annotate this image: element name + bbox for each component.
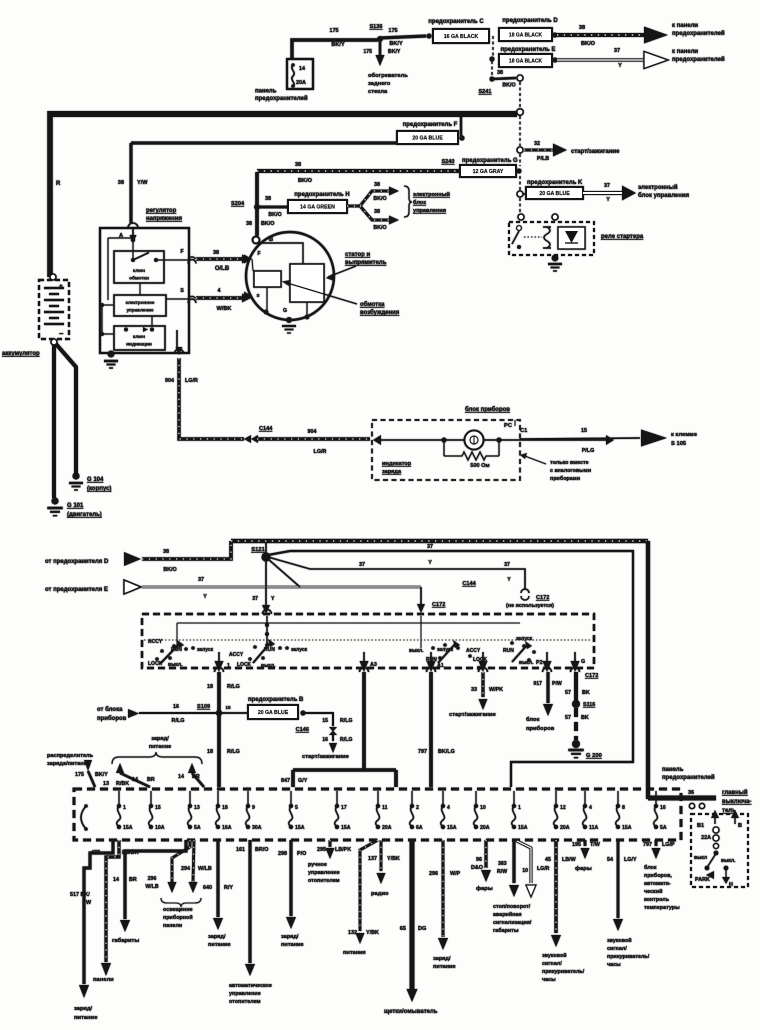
svg-text:F: F bbox=[257, 251, 260, 257]
svg-text:R/LG: R/LG bbox=[340, 737, 352, 743]
svg-text:LOCK: LOCK bbox=[237, 662, 252, 668]
svg-text:296: 296 bbox=[429, 871, 438, 877]
svg-text:ST: ST bbox=[477, 666, 485, 672]
svg-text:G: G bbox=[283, 308, 287, 314]
svg-text:96: 96 bbox=[476, 857, 482, 863]
svg-text:P/LG: P/LG bbox=[582, 448, 595, 454]
svg-text:распределитель: распределитель bbox=[47, 753, 94, 759]
svg-text:15A: 15A bbox=[295, 825, 305, 831]
svg-text:индикатор: индикатор bbox=[382, 461, 412, 467]
svg-text:37: 37 bbox=[427, 544, 433, 550]
svg-text:BK/O: BK/O bbox=[373, 225, 386, 231]
svg-text:S136: S136 bbox=[369, 24, 382, 30]
svg-text:BR: BR bbox=[192, 774, 200, 780]
svg-text:(не используется): (не используется) bbox=[506, 603, 554, 609]
svg-text:предохранителей: предохранителей bbox=[662, 774, 715, 781]
svg-text:B: B bbox=[269, 237, 274, 243]
svg-text:Y/BK: Y/BK bbox=[366, 930, 379, 936]
svg-text:1: 1 bbox=[123, 805, 126, 811]
svg-text:22A: 22A bbox=[701, 835, 711, 841]
svg-text:заряд/: заряд/ bbox=[208, 934, 226, 940]
svg-text:щетки/омыватель: щетки/омыватель bbox=[384, 1009, 438, 1015]
svg-text:заряд/: заряд/ bbox=[151, 736, 169, 742]
svg-text:A3: A3 bbox=[370, 662, 377, 668]
svg-text:Y: Y bbox=[271, 596, 275, 602]
svg-text:LG/R: LG/R bbox=[537, 866, 550, 872]
svg-text:Y/W: Y/W bbox=[137, 180, 148, 186]
svg-text:W/BK: W/BK bbox=[217, 306, 232, 312]
svg-text:LG/R: LG/R bbox=[185, 378, 198, 384]
svg-text:C144: C144 bbox=[259, 426, 273, 432]
svg-text:15A: 15A bbox=[518, 825, 528, 831]
svg-text:(корпус): (корпус) bbox=[87, 486, 111, 492]
svg-text:175: 175 bbox=[363, 49, 372, 55]
svg-text:4: 4 bbox=[447, 805, 450, 811]
svg-text:298: 298 bbox=[278, 851, 287, 857]
svg-text:R/LG: R/LG bbox=[227, 749, 240, 755]
svg-text:38: 38 bbox=[374, 182, 380, 188]
svg-text:старт/зажигание: старт/зажигание bbox=[571, 149, 620, 155]
svg-text:питание: питание bbox=[208, 942, 231, 948]
svg-text:часы: часы bbox=[542, 977, 556, 983]
svg-text:57: 57 bbox=[565, 690, 571, 696]
svg-text:сигнализация/: сигнализация/ bbox=[493, 920, 532, 926]
svg-text:питание: питание bbox=[149, 744, 172, 750]
svg-text:+: + bbox=[59, 283, 63, 290]
svg-text:BK/O: BK/O bbox=[163, 567, 176, 573]
svg-text:предохранителей: предохранителей bbox=[672, 30, 725, 37]
svg-text:W/LB: W/LB bbox=[198, 866, 212, 872]
svg-text:ACCY: ACCY bbox=[229, 652, 244, 658]
svg-text:37: 37 bbox=[504, 562, 510, 568]
svg-text:P/W: P/W bbox=[552, 681, 562, 687]
svg-text:14: 14 bbox=[178, 774, 184, 780]
svg-text:S 105: S 105 bbox=[671, 441, 687, 447]
svg-text:BK/O: BK/O bbox=[268, 212, 281, 218]
svg-text:(двигатель): (двигатель) bbox=[67, 512, 102, 518]
svg-text:57: 57 bbox=[565, 715, 571, 721]
svg-text:панели: панели bbox=[93, 977, 114, 983]
svg-text:BK: BK bbox=[582, 690, 590, 696]
svg-text:управление: управление bbox=[126, 308, 153, 313]
svg-text:BR/O: BR/O bbox=[255, 847, 268, 853]
svg-text:LG/Y: LG/Y bbox=[624, 857, 637, 863]
svg-text:175: 175 bbox=[388, 28, 397, 34]
svg-text:38: 38 bbox=[163, 549, 169, 555]
svg-text:16: 16 bbox=[173, 704, 179, 710]
svg-text:обмотки: обмотки bbox=[129, 275, 149, 282]
svg-text:38: 38 bbox=[118, 180, 124, 186]
svg-text:заряд/: заряд/ bbox=[281, 934, 299, 940]
svg-text:выключа-: выключа- bbox=[722, 799, 751, 805]
svg-text:предохранителей: предохранителей bbox=[672, 56, 725, 63]
svg-text:ACCY: ACCY bbox=[466, 648, 481, 654]
svg-text:LG/R: LG/R bbox=[314, 449, 327, 455]
svg-text:питания: питания bbox=[343, 950, 366, 956]
svg-text:к панели: к панели bbox=[672, 23, 698, 29]
svg-text:стекла: стекла bbox=[368, 89, 388, 95]
svg-text:65: 65 bbox=[400, 926, 406, 932]
svg-text:BK/Y: BK/Y bbox=[389, 41, 403, 47]
svg-text:возбуждения: возбуждения bbox=[360, 309, 400, 316]
svg-text:37: 37 bbox=[359, 562, 365, 568]
svg-text:15: 15 bbox=[155, 805, 161, 811]
svg-text:от предохранителя D: от предохранителя D bbox=[45, 559, 109, 565]
svg-text:32: 32 bbox=[534, 141, 540, 147]
svg-text:C172: C172 bbox=[585, 673, 598, 679]
svg-text:главный: главный bbox=[722, 789, 748, 796]
svg-text:выпрямитель: выпрямитель bbox=[345, 260, 387, 266]
svg-text:блок: блок bbox=[644, 864, 657, 871]
svg-text:904: 904 bbox=[308, 429, 317, 435]
svg-text:17: 17 bbox=[341, 805, 347, 811]
svg-text:14: 14 bbox=[299, 66, 305, 72]
svg-text:S109: S109 bbox=[197, 704, 210, 710]
svg-text:R/LG: R/LG bbox=[227, 684, 240, 690]
svg-text:питание: питание bbox=[74, 1015, 98, 1021]
svg-text:G 200: G 200 bbox=[586, 753, 602, 759]
svg-text:блок управления: блок управления bbox=[638, 192, 690, 199]
svg-text:предохранитель F: предохранитель F bbox=[403, 122, 458, 128]
svg-text:BK/O: BK/O bbox=[373, 196, 386, 202]
svg-text:ческий: ческий bbox=[644, 888, 662, 895]
svg-text:38: 38 bbox=[579, 25, 585, 31]
svg-text:517 BK/: 517 BK/ bbox=[70, 892, 90, 898]
svg-text:BK/O: BK/O bbox=[502, 83, 515, 89]
svg-text:175: 175 bbox=[329, 28, 338, 34]
svg-text:10: 10 bbox=[522, 868, 528, 874]
svg-text:W/PK: W/PK bbox=[489, 687, 503, 693]
svg-text:G 104: G 104 bbox=[87, 477, 104, 483]
svg-text:старт/зажигание: старт/зажигание bbox=[449, 712, 497, 718]
svg-text:S116: S116 bbox=[583, 702, 595, 708]
svg-text:управление: управление bbox=[229, 991, 261, 997]
svg-text:звуковой: звуковой bbox=[542, 952, 567, 959]
svg-text:S240: S240 bbox=[441, 159, 454, 165]
svg-text:ключ: ключ bbox=[133, 269, 145, 274]
svg-text:Y: Y bbox=[203, 594, 207, 600]
svg-text:37: 37 bbox=[252, 596, 258, 602]
svg-text:137: 137 bbox=[368, 856, 377, 862]
svg-text:H: H bbox=[729, 882, 733, 888]
svg-text:BK: BK bbox=[581, 715, 589, 721]
svg-text:реле стартера: реле стартера bbox=[601, 234, 644, 240]
svg-text:предохранитель G: предохранитель G bbox=[462, 158, 518, 164]
svg-text:выкл.: выкл. bbox=[168, 662, 183, 668]
svg-text:1: 1 bbox=[227, 663, 230, 669]
svg-text:управления: управления bbox=[413, 208, 446, 214]
svg-text:P/LB: P/LB bbox=[537, 156, 549, 162]
svg-text:15: 15 bbox=[322, 718, 328, 724]
svg-text:PARK: PARK bbox=[695, 877, 710, 883]
svg-text:выкл: выкл bbox=[694, 855, 707, 861]
svg-text:габариты: габариты bbox=[112, 937, 139, 944]
svg-text:R/BK: R/BK bbox=[116, 781, 129, 787]
svg-text:904: 904 bbox=[165, 378, 174, 384]
svg-text:C172: C172 bbox=[432, 602, 445, 608]
svg-text:фары: фары bbox=[476, 885, 493, 892]
svg-text:автомати-: автомати- bbox=[644, 881, 671, 887]
svg-text:предохранителей: предохранителей bbox=[255, 95, 308, 102]
svg-text:статор и: статор и bbox=[345, 252, 370, 258]
svg-text:предохранитель E: предохранитель E bbox=[500, 47, 555, 53]
svg-text:38: 38 bbox=[213, 250, 219, 256]
svg-text:C1: C1 bbox=[520, 428, 528, 434]
svg-text:LB/W: LB/W bbox=[562, 857, 577, 863]
svg-text:10A: 10A bbox=[155, 825, 165, 831]
svg-text:BK/Y: BK/Y bbox=[95, 772, 108, 778]
svg-text:175: 175 bbox=[75, 772, 84, 778]
svg-text:20 GA BLUE: 20 GA BLUE bbox=[539, 191, 570, 197]
svg-text:предохранитель B: предохранитель B bbox=[248, 697, 304, 703]
svg-text:15A: 15A bbox=[622, 825, 632, 831]
svg-text:выкл.: выкл. bbox=[409, 648, 424, 654]
svg-text:от блока: от блока bbox=[97, 706, 123, 713]
svg-text:приборов: приборов bbox=[526, 725, 555, 732]
svg-text:383: 383 bbox=[498, 861, 507, 867]
svg-text:заднего: заднего bbox=[368, 81, 391, 87]
svg-text:блок: блок bbox=[526, 716, 540, 723]
svg-text:стоп/поворот/: стоп/поворот/ bbox=[493, 904, 531, 910]
svg-text:11A: 11A bbox=[589, 825, 598, 831]
svg-text:12: 12 bbox=[560, 805, 566, 811]
svg-text:BK/O: BK/O bbox=[581, 41, 596, 47]
svg-text:LB/PK: LB/PK bbox=[335, 847, 351, 853]
svg-text:заряда/питания: заряда/питания bbox=[47, 761, 90, 767]
svg-text:отопителем: отопителем bbox=[308, 878, 340, 884]
svg-text:P2: P2 bbox=[536, 660, 543, 666]
svg-text:R/LG: R/LG bbox=[172, 718, 185, 724]
svg-text:O/LB: O/LB bbox=[215, 266, 230, 272]
svg-text:C144: C144 bbox=[462, 581, 476, 587]
svg-text:ключ: ключ bbox=[133, 335, 145, 340]
svg-text:Y: Y bbox=[606, 197, 610, 203]
svg-text:прикуриватель/: прикуриватель/ bbox=[607, 954, 650, 960]
svg-text:S241: S241 bbox=[478, 89, 491, 95]
svg-text:звуковой: звуковой bbox=[607, 937, 632, 944]
svg-text:37: 37 bbox=[198, 577, 204, 583]
svg-text:161: 161 bbox=[236, 847, 245, 853]
svg-text:выкл.: выкл. bbox=[721, 858, 736, 864]
svg-text:освещение: освещение bbox=[163, 907, 193, 913]
svg-text:сигнал/: сигнал/ bbox=[607, 946, 627, 952]
svg-text:блок приборов: блок приборов bbox=[465, 406, 510, 413]
svg-text:BK/Y: BK/Y bbox=[331, 42, 345, 48]
svg-text:с аналоговыми: с аналоговыми bbox=[550, 468, 591, 474]
svg-text:G 101: G 101 bbox=[67, 503, 84, 509]
svg-text:45: 45 bbox=[545, 857, 551, 863]
svg-text:P/O: P/O bbox=[297, 851, 306, 857]
svg-text:18: 18 bbox=[222, 805, 228, 811]
svg-text:ручное: ручное bbox=[308, 862, 327, 868]
svg-text:33: 33 bbox=[471, 687, 477, 693]
svg-text:управление: управление bbox=[308, 870, 340, 876]
svg-text:G/Y: G/Y bbox=[298, 778, 308, 784]
svg-text:панель: панель bbox=[662, 767, 684, 773]
svg-text:10: 10 bbox=[480, 805, 486, 811]
svg-text:только вместе: только вместе bbox=[550, 460, 589, 466]
svg-text:B: B bbox=[738, 823, 742, 829]
svg-text:BK/LG: BK/LG bbox=[438, 749, 455, 755]
svg-text:ACCY: ACCY bbox=[148, 639, 163, 645]
svg-text:15A: 15A bbox=[341, 825, 351, 831]
svg-text:BR: BR bbox=[147, 777, 155, 783]
svg-text:предохранитель K: предохранитель K bbox=[527, 180, 583, 186]
svg-text:38: 38 bbox=[374, 209, 380, 215]
svg-text:аккумулятор: аккумулятор bbox=[2, 351, 40, 357]
svg-text:DG: DG bbox=[418, 926, 426, 932]
svg-text:797: 797 bbox=[643, 842, 652, 848]
svg-text:питание: питание bbox=[281, 942, 304, 948]
svg-text:847: 847 bbox=[281, 778, 290, 784]
svg-text:917: 917 bbox=[533, 681, 542, 687]
svg-text:12 GA GRAY: 12 GA GRAY bbox=[473, 169, 504, 175]
svg-text:20A: 20A bbox=[480, 825, 490, 831]
svg-text:18 GA BLACK: 18 GA BLACK bbox=[509, 33, 543, 39]
svg-text:16 GA BLACK: 16 GA BLACK bbox=[444, 34, 479, 40]
svg-text:38: 38 bbox=[265, 196, 271, 202]
svg-text:BR: BR bbox=[129, 877, 137, 883]
svg-text:обмотка: обмотка bbox=[360, 301, 385, 308]
svg-text:электронный: электронный bbox=[638, 184, 678, 191]
svg-text:11: 11 bbox=[382, 805, 388, 811]
svg-text:20A: 20A bbox=[296, 80, 306, 86]
svg-text:36: 36 bbox=[688, 790, 694, 796]
svg-text:PC: PC bbox=[504, 423, 513, 429]
svg-text:сигнал/: сигнал/ bbox=[542, 961, 562, 967]
svg-text:Y: Y bbox=[428, 560, 432, 566]
svg-text:приборной: приборной bbox=[163, 914, 193, 921]
svg-text:132: 132 bbox=[348, 930, 357, 936]
svg-text:R/W: R/W bbox=[497, 869, 507, 875]
svg-text:отопителем: отопителем bbox=[229, 999, 261, 1005]
svg-text:R: R bbox=[56, 181, 61, 187]
svg-text:к панели: к панели bbox=[672, 49, 698, 55]
svg-text:18 GA BLACK: 18 GA BLACK bbox=[509, 59, 543, 65]
svg-text:5: 5 bbox=[295, 805, 298, 811]
svg-text:14 GA GREEN: 14 GA GREEN bbox=[300, 205, 335, 211]
svg-text:панель: панель bbox=[255, 89, 277, 95]
svg-text:предохранитель H: предохранитель H bbox=[294, 192, 349, 198]
svg-text:14: 14 bbox=[113, 877, 119, 883]
svg-text:S121: S121 bbox=[251, 547, 265, 553]
svg-text:электронное: электронное bbox=[126, 300, 155, 305]
svg-text:30A: 30A bbox=[252, 825, 262, 831]
svg-text:295: 295 bbox=[317, 847, 326, 853]
svg-text:A1: A1 bbox=[437, 663, 444, 669]
svg-text:6A: 6A bbox=[416, 825, 423, 831]
svg-text:14: 14 bbox=[132, 777, 138, 783]
svg-text:регулятор: регулятор bbox=[146, 208, 177, 214]
svg-text:8: 8 bbox=[622, 805, 625, 811]
svg-text:–: – bbox=[59, 329, 64, 338]
svg-text:электронный: электронный bbox=[413, 191, 450, 198]
svg-text:S: S bbox=[256, 293, 259, 298]
svg-text:прикуриватель/: прикуриватель/ bbox=[542, 969, 585, 975]
svg-text:LG/P: LG/P bbox=[662, 842, 675, 848]
svg-text:B1: B1 bbox=[697, 823, 704, 829]
svg-text:индикации: индикации bbox=[126, 343, 152, 348]
svg-text:5A: 5A bbox=[660, 825, 667, 831]
svg-text:выкл.: выкл. bbox=[261, 663, 276, 669]
svg-text:S: S bbox=[180, 288, 184, 294]
svg-text:38: 38 bbox=[246, 221, 252, 227]
svg-text:аварийная: аварийная bbox=[493, 911, 522, 918]
svg-text:предохранитель C: предохранитель C bbox=[428, 19, 484, 25]
svg-text:640: 640 bbox=[203, 885, 212, 891]
svg-text:16: 16 bbox=[322, 737, 328, 743]
svg-text:BK/O: BK/O bbox=[261, 221, 274, 227]
svg-text:заряд/: заряд/ bbox=[74, 1006, 93, 1012]
svg-text:294: 294 bbox=[181, 866, 190, 872]
svg-text:Y/BK: Y/BK bbox=[387, 856, 400, 862]
svg-text:18: 18 bbox=[207, 749, 213, 755]
svg-text:старт/зажигание: старт/зажигание bbox=[302, 754, 350, 760]
svg-text:4: 4 bbox=[218, 288, 221, 294]
svg-text:G: G bbox=[581, 659, 585, 665]
svg-text:панели: панели bbox=[163, 923, 182, 929]
svg-text:R/Y: R/Y bbox=[224, 885, 233, 891]
svg-text:15A: 15A bbox=[447, 825, 457, 831]
svg-text:20 GA BLUE: 20 GA BLUE bbox=[412, 136, 443, 142]
svg-text:BK/Y: BK/Y bbox=[388, 49, 401, 55]
svg-text:16A: 16A bbox=[222, 825, 232, 831]
svg-text:1: 1 bbox=[518, 805, 521, 811]
svg-text:обогреватель: обогреватель bbox=[368, 72, 408, 79]
svg-text:блок: блок bbox=[413, 199, 426, 206]
svg-text:37: 37 bbox=[614, 48, 620, 54]
svg-text:15: 15 bbox=[581, 428, 587, 434]
svg-text:выкл.: выкл. bbox=[519, 660, 534, 666]
svg-text:T/W: T/W bbox=[590, 842, 601, 848]
svg-text:часы: часы bbox=[607, 962, 621, 968]
svg-text:20 GA BLUE: 20 GA BLUE bbox=[258, 710, 289, 716]
svg-text:W/P: W/P bbox=[450, 871, 461, 877]
svg-text:приборами: приборами bbox=[550, 475, 580, 482]
svg-text:приборов: приборов bbox=[97, 715, 127, 722]
svg-text:Y: Y bbox=[507, 577, 511, 583]
svg-text:20A: 20A bbox=[382, 825, 392, 831]
svg-text:приборов,: приборов, bbox=[644, 872, 672, 879]
svg-text:16: 16 bbox=[660, 805, 666, 811]
svg-text:37: 37 bbox=[604, 183, 610, 189]
svg-text:S204: S204 bbox=[231, 201, 245, 207]
svg-text:Y: Y bbox=[618, 63, 622, 69]
svg-text:500 Ом: 500 Ом bbox=[470, 463, 489, 469]
svg-text:195: 195 bbox=[572, 842, 581, 848]
svg-text:автоматическое: автоматическое bbox=[229, 983, 272, 989]
svg-text:питание: питание bbox=[433, 964, 456, 970]
svg-text:9: 9 bbox=[252, 805, 255, 811]
svg-text:предохранитель D: предохранитель D bbox=[502, 18, 558, 24]
svg-text:2: 2 bbox=[416, 805, 419, 811]
svg-text:20A: 20A bbox=[560, 825, 570, 831]
svg-text:R/LG: R/LG bbox=[340, 718, 352, 724]
svg-text:запуск: запуск bbox=[197, 647, 214, 653]
svg-text:температуры: температуры bbox=[644, 905, 680, 911]
svg-text:54: 54 bbox=[607, 857, 613, 863]
svg-text:477: 477 bbox=[91, 850, 100, 856]
svg-text:15: 15 bbox=[225, 705, 231, 711]
svg-text:38: 38 bbox=[295, 162, 301, 168]
svg-text:радио: радио bbox=[371, 891, 389, 897]
svg-text:к клемме: к клемме bbox=[671, 432, 698, 438]
svg-text:D&O: D&O bbox=[471, 865, 483, 871]
svg-text:заряд/: заряд/ bbox=[433, 956, 451, 962]
svg-text:797: 797 bbox=[418, 749, 427, 755]
svg-text:габариты: габариты bbox=[493, 927, 519, 934]
svg-text:фары: фары bbox=[575, 865, 592, 872]
